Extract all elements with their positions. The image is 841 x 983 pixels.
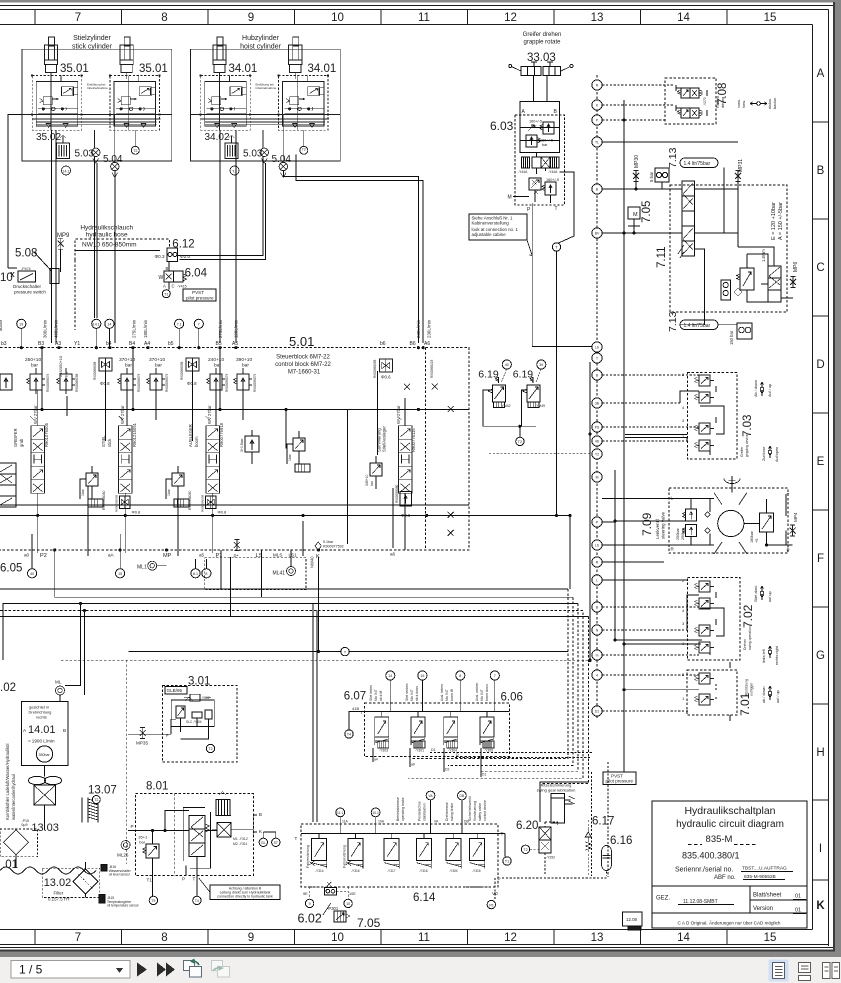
svg-text:T: T	[596, 357, 598, 361]
svg-text:9: 9	[248, 932, 254, 944]
svg-text:T2: T2	[133, 149, 137, 153]
svg-text:WV 27bar: WV 27bar	[207, 405, 212, 424]
svg-text:Y1: Y1	[74, 341, 80, 347]
svg-text:4D: 4D	[595, 440, 600, 444]
svg-text:Φ0.8: Φ0.8	[132, 510, 142, 515]
svg-text:rückw.: rückw.	[768, 98, 772, 109]
svg-text:T2: T2	[518, 440, 522, 444]
svg-text:P: P	[182, 877, 185, 882]
svg-text:Druckschalter: Druckschalter	[13, 284, 42, 289]
svg-text:41B: 41B	[352, 706, 359, 711]
svg-text:hydraulic circuit diagram: hydraulic circuit diagram	[676, 819, 784, 830]
svg-text:boom: boom	[194, 436, 199, 447]
svg-text:BV: BV	[595, 232, 600, 236]
svg-text:7: 7	[75, 932, 81, 944]
svg-text:8.01: 8.01	[146, 781, 168, 793]
svg-text:MP4: MP4	[793, 512, 798, 522]
svg-text:R900958079: R900958079	[253, 374, 257, 392]
svg-text:vorw.: vorw.	[737, 99, 741, 108]
svg-text:B4: B4	[129, 341, 135, 347]
svg-text:B6: B6	[410, 341, 416, 347]
svg-text:T1: T1	[147, 878, 153, 883]
svg-text:control block 6M7-22: control block 6M7-22	[275, 362, 331, 368]
svg-text:14: 14	[677, 932, 690, 944]
svg-text:a0/a9: a0/a9	[0, 319, 3, 331]
svg-text:links left: links left	[762, 648, 766, 663]
svg-text:12: 12	[504, 12, 517, 24]
svg-text:R900958079: R900958079	[225, 374, 229, 392]
svg-text:pilot pressure: pilot pressure	[606, 779, 634, 784]
svg-text:P: P	[498, 877, 501, 882]
svg-text:LS1: LS1	[289, 553, 298, 558]
svg-text:Mix V4T: Mix V4T	[480, 689, 484, 701]
svg-text:Drehen: Drehen	[743, 639, 747, 650]
svg-text:rechts: rechts	[36, 715, 47, 720]
svg-text:240+10: 240+10	[208, 357, 224, 363]
svg-text:backw.: backw.	[773, 97, 777, 109]
svg-text:14.01: 14.01	[28, 724, 56, 736]
svg-text:PS: PS	[595, 426, 600, 430]
svg-text:a6: a6	[390, 552, 396, 557]
svg-text:1bar: 1bar	[288, 453, 292, 461]
svg-text:B: B	[166, 266, 169, 271]
svg-text:1.8mm: 1.8mm	[761, 249, 766, 262]
svg-text:11.12.08-SMBT: 11.12.08-SMBT	[683, 899, 718, 905]
svg-text:M: M	[508, 195, 512, 201]
svg-text:Auf / up: Auf / up	[768, 384, 772, 397]
svg-text:T4: T4	[347, 733, 351, 737]
svg-text:6.05: 6.05	[0, 563, 22, 575]
svg-text:13.03: 13.03	[31, 822, 59, 834]
svg-text:275L/min: 275L/min	[131, 319, 136, 338]
svg-text:D1: D1	[431, 748, 436, 752]
svg-text:water/intercooler/hydraul: water/intercooler/hydraul	[11, 774, 16, 820]
svg-text:M: M	[596, 476, 599, 480]
svg-text:-Y44A: -Y44A	[518, 170, 528, 174]
svg-text:9: 9	[248, 12, 254, 24]
svg-text:5.03: 5.03	[243, 149, 263, 160]
svg-text:34.01: 34.01	[229, 63, 258, 75]
svg-text:7.13: 7.13	[667, 147, 679, 168]
svg-text:Ab / down: Ab / down	[754, 380, 758, 397]
svg-text:T: T	[295, 836, 298, 841]
svg-text:GL: GL	[261, 841, 266, 845]
svg-text:40: 40	[505, 363, 509, 367]
svg-text:370+10: 370+10	[149, 357, 165, 363]
svg-text:835-M: 835-M	[706, 834, 733, 845]
svg-text:a5: a5	[199, 553, 205, 558]
svg-text:12.08: 12.08	[626, 917, 638, 922]
svg-text:b6: b6	[380, 341, 386, 347]
svg-text:-Y305: -Y305	[484, 749, 493, 753]
svg-text:5.04: 5.04	[272, 154, 292, 165]
svg-text:5.04: 5.04	[103, 154, 123, 165]
svg-text:5.03: 5.03	[75, 149, 95, 160]
svg-text:Mix V4T: Mix V4T	[374, 689, 378, 701]
svg-text:TBST....U.AUFTRAG: TBST....U.AUFTRAG	[742, 866, 787, 872]
svg-text:LS: LS	[595, 346, 600, 350]
svg-text:250bar: 250bar	[681, 527, 685, 540]
svg-text:-Y44A: -Y44A	[548, 170, 558, 174]
svg-text:A: A	[817, 68, 825, 80]
svg-text:Stielzylinder: Stielzylinder	[73, 35, 111, 42]
svg-text:Filter: Filter	[54, 891, 64, 896]
svg-text:35.02: 35.02	[36, 132, 61, 143]
svg-text:8: 8	[161, 12, 167, 24]
svg-text:MP31: MP31	[738, 159, 744, 172]
svg-text:34.02: 34.02	[205, 132, 230, 143]
svg-text:300L/min: 300L/min	[43, 319, 48, 338]
svg-text:T: T	[787, 492, 790, 497]
svg-text:≈ 1900 L/min: ≈ 1900 L/min	[28, 739, 55, 744]
svg-text:13: 13	[591, 12, 604, 24]
svg-text:15: 15	[764, 932, 777, 944]
svg-text:-YM49: -YM49	[535, 404, 545, 408]
svg-text:R900968058: R900968058	[373, 360, 377, 378]
svg-text:MP30: MP30	[634, 155, 640, 168]
svg-text:adjustable cabine: adjustable cabine	[472, 232, 507, 237]
svg-text:Φ0.8: Φ0.8	[218, 510, 228, 515]
svg-text:GLB/95: GLB/95	[167, 688, 183, 693]
svg-text:R900968058: R900968058	[75, 374, 79, 392]
svg-text:5.1bar: 5.1bar	[323, 540, 334, 544]
svg-text:35.01: 35.01	[60, 63, 89, 75]
svg-text:boom down: boom down	[485, 684, 489, 701]
svg-text:350bar: 350bar	[39, 753, 51, 757]
svg-text:13.07: 13.07	[88, 785, 117, 797]
svg-text:bar: bar	[370, 480, 374, 486]
svg-text:VA: VA	[434, 820, 439, 824]
svg-text:stick cylinder: stick cylinder	[72, 44, 113, 51]
svg-text:14: 14	[677, 12, 690, 24]
svg-text:ab / down: ab / down	[762, 687, 766, 703]
svg-text:LS: LS	[595, 544, 600, 548]
svg-text:-Y317: -Y317	[387, 869, 396, 873]
svg-text:Stiel/Ausleger: Stiel/Ausleger	[382, 426, 387, 452]
svg-text:A4: A4	[144, 341, 150, 347]
svg-text:Zu/close: Zu/close	[762, 447, 766, 461]
svg-text:A5: A5	[232, 341, 238, 347]
svg-text:VA: VA	[428, 794, 433, 798]
svg-text:34.01: 34.01	[308, 63, 337, 75]
svg-text:9E: 9E	[303, 892, 308, 896]
svg-text:Ausl. senken: Ausl. senken	[475, 683, 479, 701]
svg-text:B: B	[817, 165, 825, 177]
svg-text:Φ0.8: Φ0.8	[100, 381, 110, 386]
svg-text:K: K	[816, 900, 825, 912]
svg-text:Stiel abst.: Stiel abst.	[754, 585, 758, 602]
svg-text:6.02: 6.02	[298, 912, 322, 926]
svg-text:A = 150 +/-5bar: A = 150 +/-5bar	[778, 202, 784, 240]
svg-text:10E: 10E	[349, 892, 356, 896]
svg-text:swing brake: swing brake	[450, 803, 454, 821]
svg-text:-Y270: -Y270	[703, 97, 707, 106]
svg-text:230L/min: 230L/min	[427, 319, 432, 338]
svg-text:7.05: 7.05	[357, 916, 381, 930]
svg-text:0μ9: 0μ9	[21, 823, 27, 827]
svg-text:C: C	[816, 262, 824, 274]
svg-text:auf / up: auf / up	[776, 690, 780, 703]
svg-text:Betriebsbremse: Betriebsbremse	[396, 797, 400, 821]
svg-text:14.1: 14.1	[93, 322, 100, 326]
svg-text:3B: 3B	[595, 402, 600, 406]
svg-text:-Y292: -Y292	[546, 856, 555, 860]
svg-text:safety valve: safety valve	[478, 803, 482, 821]
svg-text:Sicherheitsventil: Sicherheitsventil	[468, 796, 472, 821]
svg-text:SLC: SLC	[186, 720, 193, 724]
svg-text:P2: P2	[40, 553, 47, 559]
svg-text:W: W	[159, 275, 164, 281]
svg-text:1.4 ltr/75bar: 1.4 ltr/75bar	[684, 323, 711, 329]
svg-text:7.11: 7.11	[656, 246, 668, 268]
svg-text:R901215051: R901215051	[132, 422, 137, 447]
svg-text:Φ2.0: Φ2.0	[180, 254, 190, 259]
svg-text:M2 -Y311: M2 -Y311	[233, 842, 248, 846]
svg-text:7: 7	[198, 322, 200, 326]
svg-text:stick lift: stick lift	[379, 690, 383, 701]
svg-text:19: 19	[19, 322, 23, 326]
svg-text:D1: D1	[482, 773, 486, 777]
svg-text:B: B	[63, 728, 66, 733]
svg-text:8: 8	[205, 572, 207, 576]
svg-text:Greifer: Greifer	[740, 446, 744, 457]
svg-text:E: E	[817, 456, 825, 468]
svg-text:T: T	[501, 832, 504, 837]
svg-text:160+/-5: 160+/-5	[546, 178, 559, 182]
svg-text:H: H	[816, 747, 824, 759]
svg-text:PVST: PVST	[192, 290, 204, 295]
svg-text:Ausl. heben: Ausl. heben	[440, 684, 444, 701]
svg-text:+5: +5	[755, 539, 759, 543]
svg-text:K: K	[316, 554, 320, 560]
svg-text:GEZ.: GEZ.	[656, 896, 670, 902]
svg-text:39: 39	[539, 363, 543, 367]
svg-text:3+0.5bar: 3+0.5bar	[240, 438, 244, 452]
svg-text:P: P	[787, 548, 790, 553]
svg-text:8: 8	[459, 674, 461, 678]
svg-text:15: 15	[764, 12, 777, 24]
svg-text:PVST: PVST	[611, 773, 623, 778]
svg-text:WV 27bar: WV 27bar	[396, 405, 401, 424]
svg-text:13.02: 13.02	[44, 877, 72, 889]
svg-text:stabilisation: stabilisation	[423, 803, 427, 821]
svg-text:6.12: 6.12	[172, 239, 194, 251]
svg-text:bar: bar	[31, 363, 38, 369]
svg-text:T2: T2	[523, 848, 527, 852]
svg-text:A: A	[163, 284, 166, 289]
svg-text:grab: grab	[19, 438, 24, 447]
svg-text:R900968058: R900968058	[201, 494, 205, 512]
svg-text:R900958079: R900958079	[165, 374, 169, 392]
svg-text:T: T	[555, 206, 558, 212]
svg-text:11.1: 11.1	[337, 811, 343, 815]
svg-text:D2: D2	[445, 768, 449, 772]
svg-text:oil temperature sensor: oil temperature sensor	[107, 904, 140, 908]
svg-text:10.1: 10.1	[372, 811, 379, 815]
svg-text:-P474: -P474	[21, 267, 31, 271]
svg-text:b3: b3	[1, 341, 7, 347]
svg-text:T1: T1	[505, 860, 509, 864]
svg-text:Greifer drehen: Greifer drehen	[523, 32, 562, 38]
svg-text:-Y316: -Y316	[419, 869, 428, 873]
svg-text:Kabinenverstellung: Kabinenverstellung	[472, 221, 510, 226]
svg-text:boom lift: boom lift	[450, 689, 454, 701]
svg-text:7: 7	[494, 674, 496, 678]
svg-text:forw.: forw.	[742, 100, 746, 108]
svg-text:T2: T2	[94, 798, 98, 802]
svg-text:Kombikühler Ladeluft/Wasser/H: Kombikühler Ladeluft/Wasser/Hydrauliköl	[5, 744, 10, 820]
svg-text:B5: B5	[216, 341, 222, 347]
svg-text:Abstützung: Abstützung	[745, 679, 749, 696]
svg-text:MLS: MLS	[273, 553, 282, 558]
svg-text:250+10: 250+10	[25, 357, 41, 363]
svg-text:P1: P1	[216, 553, 223, 559]
svg-text:T: T	[193, 877, 196, 882]
svg-text:R900968058: R900968058	[115, 494, 119, 512]
svg-text:R900968058: R900968058	[180, 362, 184, 380]
svg-text:pilot pressure: pilot pressure	[186, 296, 214, 301]
svg-text:180L/min: 180L/min	[143, 319, 148, 338]
svg-text:Lenkventil: Lenkventil	[655, 519, 660, 539]
svg-text:T9: T9	[151, 899, 155, 903]
svg-text:-Y316: -Y316	[351, 869, 360, 873]
svg-text:6.07: 6.07	[344, 691, 366, 703]
svg-text:6.14: 6.14	[413, 892, 436, 904]
svg-text:7.09: 7.09	[640, 512, 654, 536]
svg-text:R900968223: R900968223	[430, 360, 434, 378]
svg-text:120L/min: 120L/min	[233, 319, 238, 338]
svg-text:WV 27bar: WV 27bar	[33, 405, 38, 424]
svg-text:11: 11	[418, 12, 430, 24]
svg-text:-Y314: -Y314	[315, 869, 324, 873]
svg-text:stick: stick	[107, 438, 112, 447]
svg-text:7.03: 7.03	[742, 415, 754, 437]
svg-text:B: B	[259, 812, 262, 817]
svg-text:L: L	[671, 496, 674, 501]
svg-text:Auf/open: Auf/open	[775, 447, 779, 462]
svg-text:5.08: 5.08	[15, 248, 37, 260]
svg-text:swing operation: swing operation	[748, 626, 752, 650]
svg-text:Blatt/sheet: Blatt/sheet	[753, 893, 782, 899]
svg-text:WV 27bar: WV 27bar	[120, 405, 125, 424]
svg-text:R900958079: R900958079	[137, 374, 141, 392]
svg-text:outrigger: outrigger	[750, 682, 754, 696]
svg-text:10: 10	[331, 12, 344, 24]
svg-text:L: L	[596, 579, 598, 583]
svg-text:R900977592: R900977592	[323, 545, 344, 549]
svg-text:NW10 650-850mm: NW10 650-850mm	[82, 242, 137, 249]
svg-text:control device: control device	[483, 800, 487, 821]
svg-text:6.03: 6.03	[490, 119, 514, 133]
svg-text:ML1: ML1	[137, 565, 147, 571]
svg-text:M7-1660-31: M7-1660-31	[288, 370, 321, 376]
svg-text:Φ0.3: Φ0.3	[155, 254, 165, 259]
svg-text:operating brake: operating brake	[401, 797, 405, 821]
svg-text:Mix V4T: Mix V4T	[445, 689, 449, 701]
svg-text:-Y315: -Y315	[472, 869, 481, 873]
svg-text:hoist cylinder: hoist cylinder	[240, 44, 282, 51]
svg-text:R900958080: R900958080	[188, 490, 192, 510]
svg-text:MP: MP	[163, 553, 172, 559]
svg-text:aA: aA	[108, 553, 115, 558]
svg-text:grapple rotate: grapple rotate	[523, 40, 561, 46]
svg-text:Vorsteuerung: Vorsteuerung	[473, 801, 477, 821]
svg-text:-Y303: -Y303	[379, 749, 388, 753]
svg-text:bar: bar	[125, 363, 132, 369]
svg-text:40: 40	[30, 572, 34, 576]
svg-text:7: 7	[75, 12, 81, 24]
svg-text:6.20: 6.20	[516, 820, 538, 832]
svg-text:rechts right: rechts right	[775, 645, 779, 665]
svg-text:DB: DB	[464, 820, 469, 824]
svg-text:b5: b5	[168, 341, 174, 347]
svg-text:Hubzylinder: Hubzylinder	[242, 35, 280, 42]
svg-text:1bar: 1bar	[81, 488, 85, 496]
svg-text:14: 14	[388, 674, 392, 678]
svg-text:B3: B3	[38, 341, 44, 347]
svg-text:Fahren/driving: Fahren/driving	[306, 845, 310, 868]
svg-text:ML25: ML25	[117, 853, 129, 858]
svg-text:ML: ML	[55, 680, 62, 685]
svg-text:6.06: 6.06	[501, 692, 523, 704]
svg-text:160+/-5: 160+/-5	[529, 120, 542, 124]
svg-text:T2: T2	[208, 747, 212, 751]
svg-text:Drehbremse: Drehbremse	[445, 802, 449, 821]
svg-text:14: 14	[107, 322, 111, 326]
svg-text:ST: ST	[274, 841, 278, 845]
svg-text:E = 120 +10bar: E = 120 +10bar	[771, 202, 777, 240]
svg-text:.02: .02	[0, 682, 16, 694]
svg-text:150 bar: 150 bar	[729, 330, 734, 345]
svg-text:-Y415: -Y415	[177, 285, 187, 289]
svg-text:bar: bar	[139, 840, 145, 845]
svg-text:MP6: MP6	[793, 262, 799, 273]
svg-text:-YM42: -YM42	[501, 404, 511, 408]
svg-text:TL: TL	[595, 141, 599, 145]
svg-text:Pendelachse: Pendelachse	[418, 801, 422, 821]
svg-text:m: m	[596, 654, 599, 658]
svg-text:Mix V4T: Mix V4T	[410, 689, 414, 701]
svg-text:gripping device: gripping device	[745, 434, 749, 457]
svg-text:1.4 ltr/75bar: 1.4 ltr/75bar	[684, 161, 711, 167]
svg-text:Hydraulikschlauch: Hydraulikschlauch	[80, 225, 133, 232]
svg-text:driving: driving	[721, 97, 725, 108]
svg-text:C: C	[172, 284, 175, 289]
svg-text:8: 8	[161, 932, 167, 944]
svg-text:835.400.380/1: 835.400.380/1	[682, 851, 740, 861]
svg-text:D: D	[456, 753, 459, 757]
svg-text:-Y301: -Y301	[415, 749, 424, 753]
svg-text:10: 10	[331, 932, 344, 944]
svg-text:7.1: 7.1	[177, 322, 182, 326]
svg-text:10A: 10A	[378, 820, 385, 824]
svg-text:T2: T2	[595, 453, 599, 457]
svg-text:Hydraulikschaltplan: Hydraulikschaltplan	[684, 805, 775, 817]
svg-text:a9: a9	[411, 763, 415, 767]
svg-text:R900958079: R900958079	[46, 374, 50, 392]
svg-text:01: 01	[795, 894, 801, 900]
svg-text:T1: T1	[164, 292, 168, 296]
svg-text:Φ0.6: Φ0.6	[381, 375, 391, 380]
svg-text:1bar: 1bar	[167, 488, 171, 496]
svg-text:I: I	[819, 843, 822, 855]
svg-text:-P301: -P301	[327, 906, 339, 911]
svg-text:-Y802: -Y802	[201, 696, 210, 700]
svg-text:ML41: ML41	[273, 571, 286, 577]
svg-text:6.04: 6.04	[185, 268, 208, 280]
svg-text:D: D	[816, 359, 824, 371]
svg-text:-Y804: -Y804	[193, 720, 202, 724]
